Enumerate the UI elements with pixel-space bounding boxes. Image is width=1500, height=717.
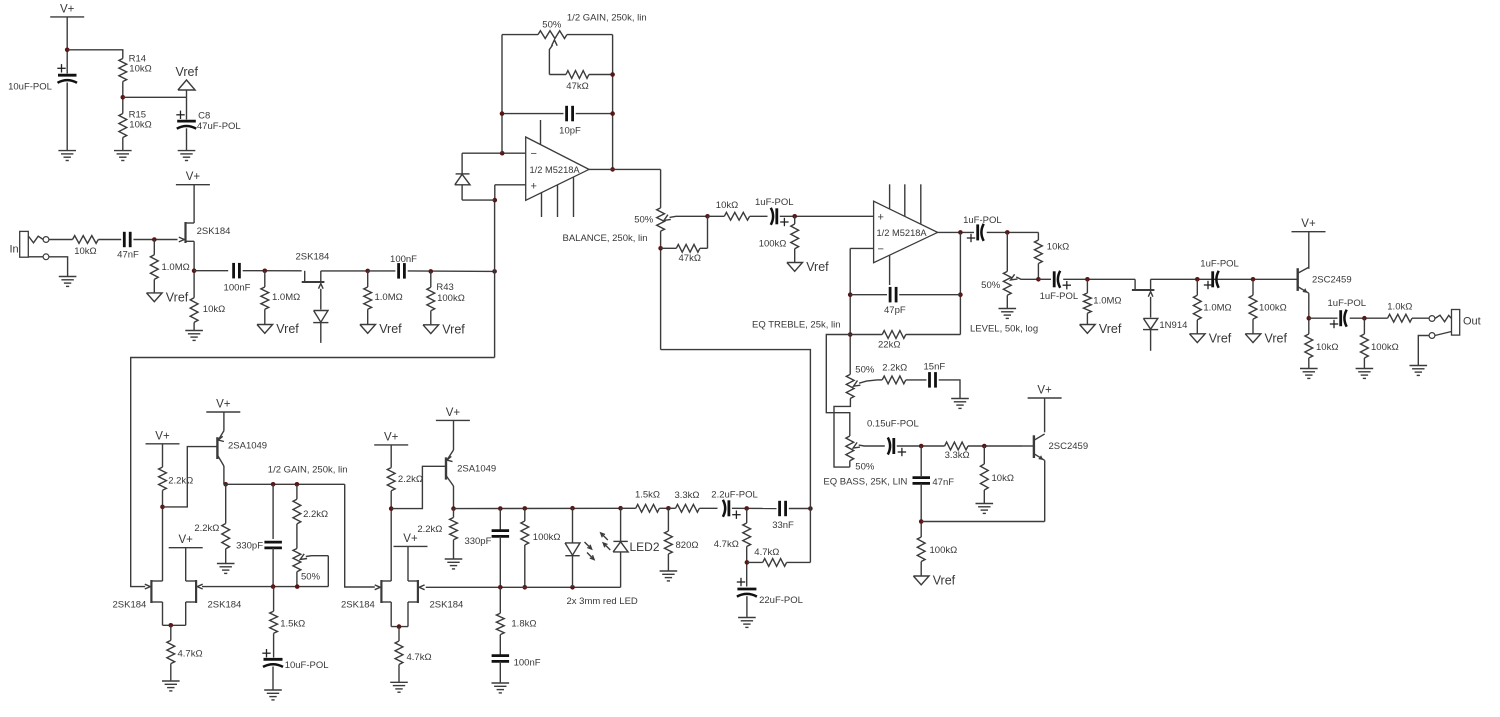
wire V+ to drain p1 (185, 548, 187, 581)
svg-text:100kΩ: 100kΩ (437, 293, 465, 304)
svg-text:330pF: 330pF (236, 541, 263, 552)
resistor 2.2k cell1 bias (159, 467, 194, 490)
capacitor 330pF cell2 (464, 531, 509, 548)
wire 4.7k to node Y (746, 547, 748, 587)
node 47k right (610, 72, 615, 77)
wire R14 to R15 (122, 82, 124, 114)
svg-text:1.0MΩ: 1.0MΩ (272, 292, 300, 303)
svg-text:V+: V+ (186, 171, 201, 183)
V+ cell2 bias (374, 431, 408, 445)
svg-text:1/2 M5218A: 1/2 M5218A (530, 165, 581, 175)
svg-text:47kΩ: 47kΩ (566, 81, 588, 92)
wire C2 to JFET2 (243, 270, 302, 272)
wire node A to bass top (826, 335, 850, 437)
resistor 100k eq (917, 537, 957, 562)
node out bias 1 (1195, 277, 1200, 282)
resistor 820 rect (665, 508, 699, 554)
wire balance bottom (660, 231, 662, 350)
svg-text:15nF: 15nF (924, 362, 946, 373)
resistor 1.5k cell1 (270, 587, 306, 634)
wire 330pF bottom c1 (272, 548, 274, 587)
transistor 2SK184 series JFET (296, 252, 330, 310)
wire load to gnd c2 (453, 540, 455, 558)
wire to C5 (750, 215, 768, 217)
svg-text:1uF-POL: 1uF-POL (963, 215, 1002, 226)
node inverting feedback (500, 151, 505, 156)
transistor 2SK184 mute JFET (1132, 279, 1155, 317)
wire 3.3k to base (968, 445, 1023, 447)
svg-text:1.0MΩ: 1.0MΩ (1093, 296, 1121, 307)
wire to out cap (1309, 317, 1338, 319)
svg-text:4.7kΩ: 4.7kΩ (407, 652, 432, 663)
svg-text:33nF: 33nF (772, 520, 794, 531)
node pot bottom c1 (295, 584, 300, 589)
Vref eq (913, 562, 955, 588)
node riser junction (492, 269, 497, 274)
resistor 100k out load (1361, 318, 1399, 358)
V+ cell2 pnp (436, 407, 470, 421)
resistor 4.7k rect B (747, 547, 811, 566)
wire src bus p2 (391, 626, 408, 628)
ground 820 (660, 571, 678, 581)
svg-text:47kΩ: 47kΩ (679, 253, 701, 264)
node src p1 (169, 623, 174, 628)
input jack J1 (10, 231, 49, 259)
capacitor 1uF-POL output (1328, 298, 1367, 328)
ground eq 10k (976, 503, 994, 514)
wire JFET2 to node (321, 270, 368, 272)
wire 4.7k to gnd p1 (170, 664, 172, 681)
svg-text:2.2kΩ: 2.2kΩ (882, 362, 907, 373)
wire V+ to drain p2 (407, 546, 409, 581)
wire V+ to drain (193, 185, 195, 223)
capacitor 100nF interstage 1 (224, 263, 251, 294)
capacitor 1uF-POL out coupling (1200, 259, 1239, 290)
V+ pair1 (169, 534, 203, 548)
wire 1.5k to cap (273, 633, 275, 657)
capacitor 1uF-POL op2 in (755, 197, 794, 226)
capacitor 47pF feedback (884, 287, 906, 316)
label C8 (197, 111, 241, 133)
resistor 1.0M mute bias (1084, 279, 1122, 313)
Vref bias 2 (257, 309, 299, 336)
wire wiper to 47k (707, 216, 709, 248)
op-amp U1 power pins (541, 120, 574, 217)
node R43 (429, 269, 434, 274)
svg-text:50%: 50% (981, 280, 1001, 291)
wire C7 to mute JFET (1063, 278, 1135, 280)
svg-text:2SC2459: 2SC2459 (1312, 275, 1352, 286)
svg-text:2SA1049: 2SA1049 (228, 441, 267, 452)
svg-text:BALANCE, 250k, lin: BALANCE, 250k, lin (563, 233, 648, 244)
capacitor 47nF input (117, 232, 139, 261)
Vref bias 3 (360, 309, 402, 336)
wire pot left (502, 34, 538, 36)
ground source resistor (185, 330, 203, 340)
wire emitter return (921, 521, 1044, 523)
resistor R43 100k (427, 271, 465, 310)
ground out jack (1410, 364, 1428, 375)
svg-text:10kΩ: 10kΩ (1047, 242, 1069, 253)
svg-text:V+: V+ (403, 533, 418, 545)
transistor Q2 2SA1049 (446, 450, 496, 509)
node bass sum (919, 444, 924, 449)
wire pot right (567, 34, 613, 36)
resistor 1.0M bias (150, 240, 189, 280)
resistor 2.2k cell1 load (194, 484, 229, 549)
potentiometer EQ TREBLE 25k (846, 365, 877, 399)
wire 10k to wiper node (1037, 264, 1039, 280)
wire V+ to 2.2k c2 (390, 445, 392, 468)
node cell1 pot top (295, 482, 300, 487)
svg-text:Vref: Vref (442, 322, 465, 336)
resistor 2.2k cell1 chain (293, 499, 328, 524)
ground 15nF (951, 398, 969, 409)
svg-text:V+: V+ (446, 407, 461, 419)
wire to out jack (1412, 317, 1429, 319)
output jack J2 (1429, 310, 1481, 339)
svg-text:1.0MΩ: 1.0MΩ (375, 292, 403, 303)
resistor 47k balance (661, 244, 708, 264)
transistor 2SK184 input JFET (179, 222, 231, 243)
resistor 2.2k cell2 load (417, 509, 457, 540)
svg-text:1.0MΩ: 1.0MΩ (162, 262, 190, 273)
Vref out 2 (1245, 319, 1287, 345)
capacitor 1uF-POL op2 out (963, 215, 1002, 242)
node cell2 100k top (523, 506, 528, 511)
node LED2 top (618, 506, 623, 511)
wire to base cell2 (391, 466, 445, 508)
resistor 22k feedback (850, 331, 960, 351)
wire 330pF top c1 (272, 484, 274, 539)
svg-text:4.7kΩ: 4.7kΩ (178, 649, 203, 660)
wire node to 47nF (920, 446, 922, 478)
svg-text:1.8kΩ: 1.8kΩ (511, 619, 536, 630)
transistor 2SK184 pair1 left (113, 580, 163, 611)
transistor Q3 2SC2459 eq (1034, 434, 1088, 460)
svg-text:+: + (878, 212, 884, 224)
wire op2 feedback right rail (959, 232, 961, 334)
resistor 10k source (190, 298, 225, 323)
node 330pF bottom c1 (271, 584, 276, 589)
wire cell2 rail (454, 507, 621, 509)
svg-text:10uF-POL: 10uF-POL (8, 82, 52, 93)
wire V+ to emitter c2 (453, 420, 455, 450)
svg-text:2SK184: 2SK184 (341, 600, 375, 611)
svg-text:2SC2459: 2SC2459 (1049, 441, 1089, 452)
svg-text:50%: 50% (855, 365, 875, 376)
node cell2 collector (451, 506, 456, 511)
wire src right p1 (185, 602, 187, 625)
node cell2 bias (389, 506, 394, 511)
wire 330pF bottom c2 (499, 537, 501, 588)
Vref supply symbol (176, 65, 199, 97)
wire op2 feedback left rail (849, 248, 851, 374)
capacitor 33nF (772, 501, 794, 531)
svg-text:Vref: Vref (176, 65, 199, 79)
svg-text:EQ BASS, 25K, LIN: EQ BASS, 25K, LIN (823, 477, 907, 488)
wire pot bottom c1 (296, 572, 298, 587)
svg-text:2SK184: 2SK184 (197, 226, 231, 237)
capacitor 47nF eq (913, 477, 955, 488)
op-amp U1 1/2 M5218A (526, 137, 589, 200)
wire cap to 1k (1350, 317, 1388, 319)
ground cell2 cap (492, 682, 510, 693)
svg-text:820Ω: 820Ω (676, 540, 699, 551)
svg-text:10pF: 10pF (559, 126, 581, 137)
svg-text:2.2kΩ: 2.2kΩ (194, 523, 219, 534)
transistor Q1 2SA1049 (217, 431, 267, 485)
Vref mute 1 (1080, 313, 1122, 336)
node after C7 (1085, 277, 1090, 282)
Vref bias 1 (147, 279, 189, 304)
wire 10k to ground (983, 490, 985, 503)
node cell1 collector (223, 482, 228, 487)
wire cap to gnd c1 (272, 667, 274, 690)
svg-text:V+: V+ (1301, 218, 1316, 230)
svg-text:100kΩ: 100kΩ (533, 532, 561, 543)
wire V+ to 2.2k c1 (162, 444, 164, 467)
resistor 2.2k cell2 bias (387, 468, 423, 491)
transistor 2SK184 pair2 left (341, 580, 391, 611)
resistor 10k level (1035, 240, 1070, 264)
wire V+ to collector out (1308, 232, 1310, 269)
ground cell2 load (445, 558, 463, 569)
wire src left p1 (162, 602, 164, 625)
potentiometer EQ BASS 25k (823, 436, 907, 488)
resistor 10k to op2 (708, 200, 750, 220)
node base 2SC2459 eq (982, 444, 987, 449)
node 47pF left (848, 292, 853, 297)
wire feedback left rail (501, 35, 503, 154)
ground pair2 (390, 682, 408, 693)
node op1 output (610, 167, 615, 172)
svg-text:V+: V+ (179, 534, 194, 546)
op-amp U2 power pins (890, 184, 921, 285)
wire jack sleeve to ground (49, 257, 68, 276)
svg-text:3.3kΩ: 3.3kΩ (945, 450, 970, 461)
wire emitter down (1044, 460, 1046, 521)
svg-text:1.0MΩ: 1.0MΩ (1203, 303, 1231, 314)
svg-text:V+: V+ (60, 3, 75, 15)
wire treble bottom to bass bottom (834, 399, 850, 468)
node op2 bias (792, 214, 797, 219)
wire to C3 (368, 270, 396, 272)
wire src bus p1 (163, 624, 186, 626)
svg-text:V+: V+ (216, 399, 231, 411)
wire 22uF to gnd (746, 596, 748, 617)
wire jack tip to R1 (49, 239, 73, 241)
svg-text:−: − (878, 243, 884, 255)
svg-text:Vref: Vref (1209, 331, 1232, 345)
LED LED1 (565, 508, 594, 587)
wire op2 inverting (850, 247, 873, 249)
resistor 3.3k rect (668, 490, 699, 512)
svg-text:2.2kΩ: 2.2kΩ (303, 509, 328, 520)
svg-text:2SA1049: 2SA1049 (457, 464, 496, 475)
node 33nF feed (808, 506, 813, 511)
wire non-inverting input (495, 184, 526, 186)
wire 2.2k to 15nF (906, 379, 927, 381)
label cell1 gain (268, 465, 348, 476)
wire 10pF left (502, 113, 564, 115)
resistor 4.7k rect A (714, 508, 751, 550)
svg-text:Vref: Vref (1265, 331, 1288, 345)
svg-text:Vref: Vref (933, 574, 956, 588)
wire V+ to collector (1044, 398, 1046, 432)
potentiometer LEVEL 50k (970, 271, 1038, 334)
node after JFET2 (365, 269, 370, 274)
wire to ground 2 (1363, 358, 1365, 368)
potentiometer BALANCE 250k (563, 208, 708, 244)
wire op2 output (938, 231, 974, 233)
wire C8 to ground (186, 128, 188, 150)
wire 2.2k to drain (162, 490, 164, 581)
V+ rail supply (50, 3, 84, 17)
wire base eq (1023, 445, 1034, 447)
svg-text:1uF-POL: 1uF-POL (1040, 291, 1079, 302)
svg-text:Vref: Vref (166, 290, 189, 304)
resistor 100k op2 bias (759, 216, 799, 249)
svg-text:2.2kΩ: 2.2kΩ (168, 476, 193, 487)
svg-text:1N914: 1N914 (1159, 320, 1187, 331)
wire plus jog (494, 185, 496, 200)
node Vref divider (121, 95, 126, 100)
node level wiper (1036, 277, 1041, 282)
svg-text:−: − (531, 148, 537, 160)
svg-text:1uF-POL: 1uF-POL (1328, 298, 1367, 309)
wire C1 to gate (133, 239, 177, 241)
wire V+ to emitter c1 (223, 412, 225, 431)
resistor 4.7k pair2 (395, 627, 431, 665)
resistor 1.5k rect (621, 490, 669, 513)
wire load to gnd (225, 549, 227, 563)
resistor 10k out (1305, 334, 1339, 358)
node output emitter (1307, 316, 1312, 321)
node src p2 (397, 624, 402, 629)
svg-text:V+: V+ (1037, 385, 1052, 397)
capacitor C8 47uF-POL (176, 111, 196, 129)
svg-text:4.7kΩ: 4.7kΩ (754, 547, 779, 558)
resistor 4.7k pair1 (167, 625, 203, 663)
resistor 1.0M bias 3 (364, 271, 403, 309)
svg-text:10kΩ: 10kΩ (203, 304, 225, 315)
capacitor 10uF-POL cell1 (262, 649, 328, 671)
svg-text:1/2 M5218A: 1/2 M5218A (877, 228, 928, 238)
wire R1 to C1 (98, 239, 121, 241)
svg-text:2.2kΩ: 2.2kΩ (417, 524, 442, 535)
wire diode bottom (462, 199, 495, 201)
resistor 100k cell2 (521, 508, 561, 587)
ground input jack (59, 276, 77, 287)
wire pot to ground (1006, 295, 1008, 307)
svg-text:10kΩ: 10kΩ (1316, 342, 1338, 353)
wire jack ring ground (1418, 336, 1429, 365)
wire C3 to R43 node (408, 270, 495, 273)
svg-text:100nF: 100nF (514, 657, 541, 668)
resistor R14 10k (119, 54, 152, 82)
wire src left p2 (390, 602, 392, 627)
svg-text:10kΩ: 10kΩ (992, 473, 1014, 484)
svg-text:50%: 50% (542, 20, 562, 31)
node cell1 bias (160, 505, 165, 510)
svg-text:R43: R43 (436, 282, 453, 293)
node Y rect (745, 560, 750, 565)
svg-text:100nF: 100nF (224, 283, 251, 294)
wire to base cell1 (163, 447, 217, 507)
wire op-amp input riser (494, 200, 496, 357)
svg-text:10kΩ: 10kΩ (74, 246, 96, 257)
capacitor 15nF (924, 362, 946, 388)
node level top (1005, 230, 1010, 235)
svg-text:22uF-POL: 22uF-POL (759, 595, 803, 606)
diode gate clamp JFET2 (313, 311, 328, 343)
wire 100nF to gnd (499, 662, 501, 683)
node 10pF left (500, 111, 505, 116)
svg-text:100kΩ: 100kΩ (1259, 303, 1287, 314)
svg-text:Vref: Vref (1099, 322, 1122, 336)
svg-text:47nF: 47nF (932, 477, 954, 488)
svg-text:2.2kΩ: 2.2kΩ (398, 474, 423, 485)
svg-text:10uF-POL: 10uF-POL (285, 660, 329, 671)
node X rect (744, 506, 749, 511)
label EQ TREBLE (752, 320, 841, 331)
node 820 top (666, 506, 671, 511)
svg-text:2SK184: 2SK184 (430, 600, 464, 611)
capacitor 0.15uF-POL (867, 419, 919, 457)
transistor Q4 2SC2459 output (1298, 267, 1352, 293)
Vref op2 bias (787, 249, 829, 274)
svg-text:1uF-POL: 1uF-POL (1200, 259, 1239, 270)
svg-text:Vref: Vref (276, 322, 299, 336)
wire 15nF to ground (939, 380, 960, 398)
ground supply cap (58, 150, 76, 160)
wire 820 to gnd (667, 554, 669, 571)
node balance bottom 47k (658, 246, 663, 251)
resistor 10k input (73, 236, 99, 257)
V+ input JFET (176, 171, 210, 185)
svg-text:1.5kΩ: 1.5kΩ (635, 490, 660, 501)
node gate bias (152, 237, 157, 242)
capacitor 10pF (559, 106, 581, 137)
svg-text:47uF-POL: 47uF-POL (197, 121, 241, 132)
V+ output follower (1292, 218, 1326, 232)
svg-text:22kΩ: 22kΩ (878, 340, 900, 351)
svg-text:2.2uF-POL: 2.2uF-POL (711, 489, 757, 500)
resistor 100k out bias (1249, 279, 1287, 319)
capacitor 330pF cell1 (236, 541, 282, 552)
node out bias 2 (1251, 277, 1256, 282)
resistor 1.8k cell2 (496, 587, 536, 634)
node cell2 100k bottom (523, 585, 528, 590)
potentiometer cell1 50% (293, 549, 328, 583)
svg-text:0.15uF-POL: 0.15uF-POL (867, 419, 919, 430)
wire balance feed down (661, 350, 811, 563)
svg-text:10kΩ: 10kΩ (129, 64, 151, 75)
node balance wiper (705, 214, 710, 219)
ground level pot (999, 308, 1017, 319)
svg-text:In: In (10, 244, 19, 256)
wire rail down to cell2 gate (345, 484, 375, 587)
wire 47pF left (850, 294, 887, 296)
ground out 100k (1356, 368, 1374, 379)
capacitor 100nF cell2 (492, 656, 541, 669)
capacitor 22uF-POL (737, 578, 803, 606)
ground out 10k (1300, 368, 1318, 379)
wire 47nF down (920, 484, 922, 538)
LED LED2 (601, 508, 660, 587)
svg-text:1/2 GAIN, 250k, lin: 1/2 GAIN, 250k, lin (567, 13, 647, 24)
